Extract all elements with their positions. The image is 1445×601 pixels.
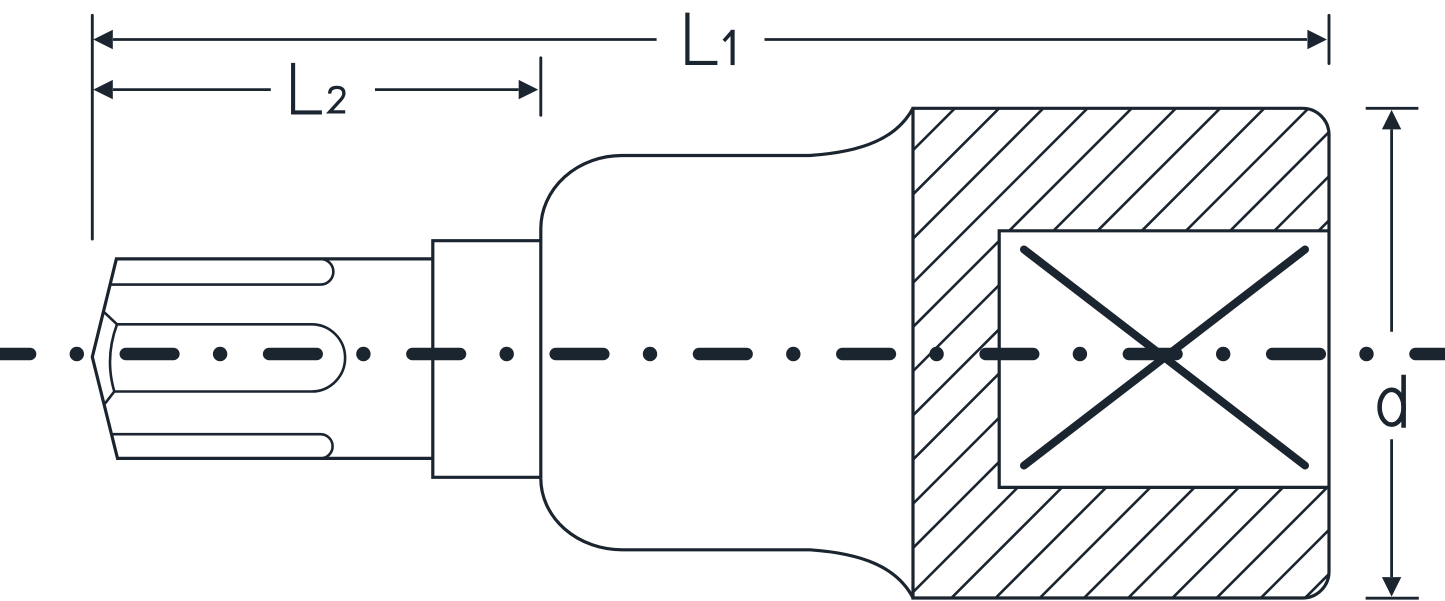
dimension d bottom tick [1366,597,1419,600]
dimension line L1 [113,38,1307,41]
square drive hole outline [999,231,1329,488]
arrowhead L2 left [93,80,113,99]
arrowhead d bottom [1382,577,1401,597]
dimension line L2 [113,88,519,91]
cross-out X mark in drive hole [1024,250,1305,466]
bit middle flute tip cap [110,324,117,391]
extension line at bit tip (left) [91,15,94,239]
arrowhead L1 right [1307,30,1327,49]
label d [1380,375,1404,428]
label L2 [293,63,345,113]
neck lower profile [541,478,913,597]
socket body section hatching [458,100,1445,601]
dimension d top tick [1366,107,1419,110]
label L1 [687,13,732,66]
extension line at collar end (L2 right) [539,58,542,115]
dimension line d [1390,130,1393,578]
bit middle flute slot [104,312,345,403]
centre line dashes [0,348,1445,361]
arrowhead L1 left [93,30,113,49]
socket body outline [913,108,1329,598]
bit bottom flute slot [113,434,333,458]
centre line dots [70,347,1374,361]
arrowhead d top [1382,110,1401,129]
collar outline [433,241,541,478]
extension line at body end (L1 right) [1328,15,1331,63]
square drive hole window [999,231,1327,488]
arrowhead L2 right [519,80,539,99]
neck upper profile [541,108,913,478]
torx bit outline with chamfered tip [92,259,433,459]
bit top flute slot [111,259,334,285]
